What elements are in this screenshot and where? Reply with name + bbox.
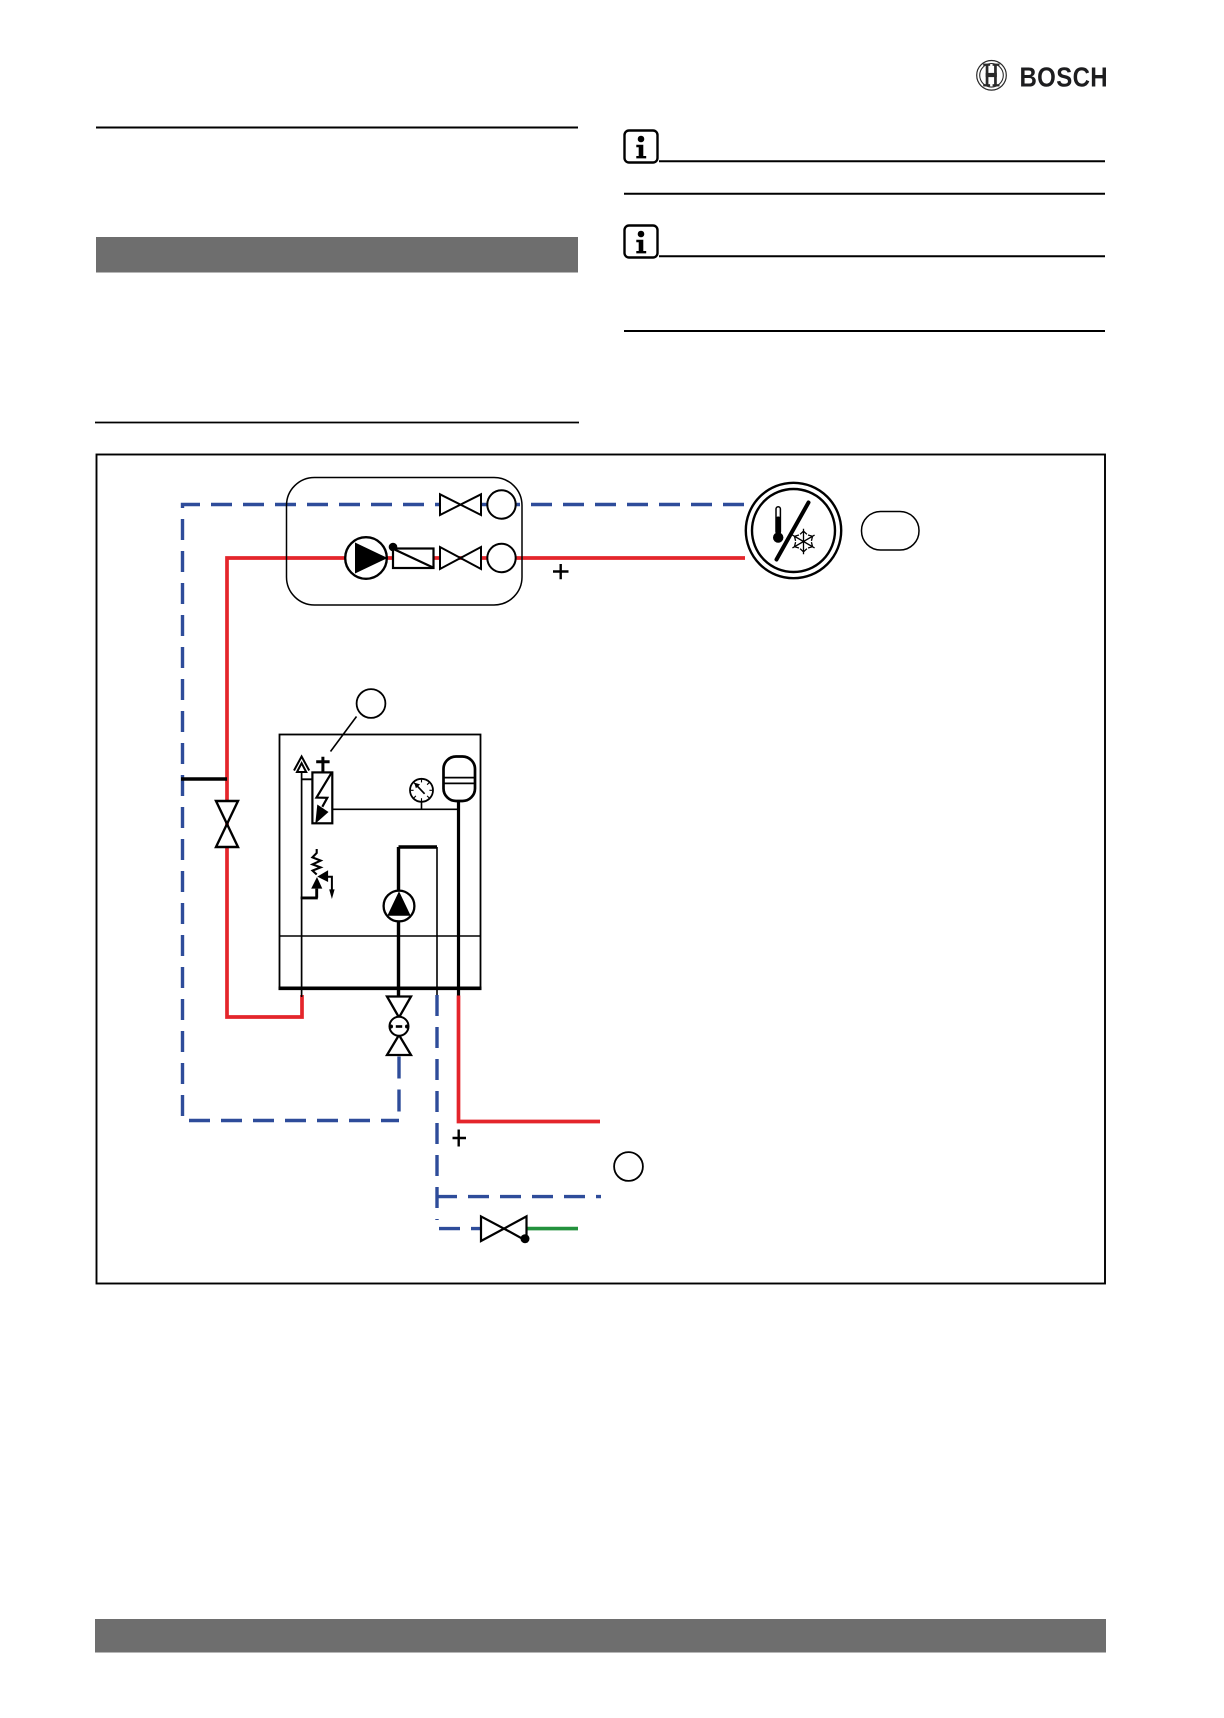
svg-text:BOSCH: BOSCH — [1020, 60, 1108, 92]
header rule left column — [96, 127, 578, 129]
block inner line — [280, 935, 481, 937]
vessel stem — [457, 801, 460, 996]
plus marker bottom — [453, 1130, 467, 1147]
snowflake — [791, 529, 817, 555]
pointer line — [331, 717, 357, 752]
manifold line to vessel — [332, 808, 458, 810]
safety valve (solenoid rect with bolt) — [312, 772, 332, 823]
diagram frame — [97, 455, 1106, 1284]
shut-off valve on left riser — [216, 801, 238, 847]
Bosch logo symbol — [977, 61, 1007, 91]
thermometer — [776, 507, 780, 534]
fill/drain valve under block — [387, 997, 411, 1056]
info icon 2 — [625, 226, 658, 258]
vent connector — [302, 778, 313, 780]
union circle on dashed line — [487, 490, 515, 518]
wire: blue dashed bottom horizontal run — [436, 1195, 601, 1198]
pump group enclosure — [287, 478, 523, 606]
pressure gauge — [410, 779, 433, 810]
info note rule 1 — [659, 160, 1105, 162]
wire: blue dashed vertical from block to bottom — [435, 995, 438, 1220]
wire: red flow line top and left drop — [227, 558, 745, 1017]
wire: blue dashed bottom stub to drain cock — [439, 1227, 481, 1230]
info note rule 2 — [659, 255, 1105, 257]
valve V2 on red line — [440, 547, 481, 569]
bypass relief valve: body — [317, 870, 328, 882]
antifreeze unit (thermostat circle) — [746, 483, 841, 578]
drain cock dot — [521, 1234, 530, 1243]
block bottom thick edge — [279, 986, 482, 990]
label pill — [862, 512, 920, 551]
plus marker top — [553, 564, 569, 579]
hydraulic block enclosure — [280, 735, 481, 989]
label circle bottom — [614, 1152, 643, 1181]
bypass relief valve: spring — [312, 849, 320, 875]
drain cock bottom — [481, 1216, 527, 1241]
block pump riser — [399, 845, 438, 848]
dagger marker — [316, 757, 329, 773]
check valve (non-return) — [393, 549, 434, 569]
union circle on red line — [487, 544, 515, 572]
valve V1 on dashed line — [440, 494, 481, 515]
footer bar (redacted) — [95, 1619, 1106, 1653]
thin return line in block — [436, 847, 438, 995]
automatic air vent — [294, 757, 309, 773]
subsection rule left column — [95, 422, 579, 424]
pump P2 in block — [384, 891, 415, 922]
bypass relief valve: outlet arrow — [328, 877, 332, 890]
info icon 1 — [625, 131, 658, 163]
wire: blue dashed return circuit (left loop) — [183, 505, 745, 1121]
bypass relief valve: inlet — [301, 889, 318, 898]
air vent pipe — [301, 772, 303, 997]
slash — [777, 503, 809, 560]
wire: red flow line lower right — [459, 996, 601, 1122]
wire: blue dashed from drain valve to bottom run — [397, 1057, 400, 1121]
pump P1 — [345, 537, 387, 579]
expansion vessel — [444, 757, 476, 802]
divider rule right column 2 — [624, 330, 1105, 332]
wire: green drain line — [527, 1227, 578, 1231]
junction dot — [389, 543, 398, 552]
wire: black stub connecting dashed riser to red riser — [181, 777, 227, 780]
divider rule right column 1 — [624, 193, 1105, 195]
label circle top — [357, 689, 386, 718]
section title bar (redacted) — [96, 237, 578, 273]
